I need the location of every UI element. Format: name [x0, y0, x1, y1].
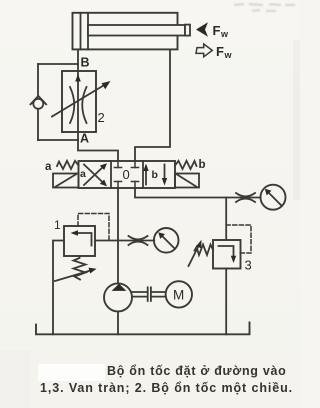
- position a crossed arrows: [84, 163, 107, 186]
- wire P line pump to valve: [117, 188, 119, 284]
- directional valve body: [79, 161, 176, 188]
- svg-text:B: B: [81, 56, 90, 70]
- wire T line to right: [135, 188, 261, 198]
- left solenoid: [53, 174, 79, 188]
- piston rod: [88, 25, 190, 36]
- svg-text:M: M: [173, 288, 184, 303]
- caption line 2: [40, 381, 293, 395]
- wire cylinder rod side down: [135, 49, 170, 161]
- spring of valve 1: [74, 256, 86, 280]
- svg-text:b: b: [152, 169, 158, 181]
- wire tee down to valve 3: [225, 198, 227, 241]
- pump: [104, 283, 132, 311]
- svg-text:w: w: [220, 29, 229, 39]
- wire valve1 drain to tank: [53, 241, 64, 335]
- svg-text:a: a: [45, 161, 52, 173]
- coupling shaft: [132, 287, 166, 301]
- svg-text:2: 2: [98, 110, 105, 125]
- wire bypass bottom: [38, 139, 78, 141]
- position b parallel arrows: [143, 164, 167, 186]
- gauge top right: [261, 185, 286, 210]
- svg-text:b: b: [199, 159, 206, 171]
- spring 1 adjust arrow: [55, 268, 97, 281]
- position 0 blocked ports: [114, 161, 138, 188]
- throttle top right: [236, 193, 255, 196]
- throttle middle: [129, 236, 148, 239]
- svg-text:0: 0: [123, 167, 130, 182]
- check valve: [31, 96, 47, 109]
- relief valve 3 body: [213, 240, 241, 269]
- tank: [36, 322, 250, 334]
- svg-text:A: A: [80, 132, 89, 146]
- right spring: [175, 161, 197, 169]
- throttle arcs of valve 2: [70, 87, 74, 123]
- spring of valve 3: [195, 245, 214, 256]
- relief valve 1 internal arrow: [71, 230, 92, 245]
- wire cylinder cap to node B: [77, 49, 79, 71]
- pilot line valve 3 (dashed): [226, 225, 251, 253]
- svg-text:3: 3: [245, 258, 252, 273]
- relief valve 3 internal arrow: [219, 246, 237, 263]
- pilot line valve 1 (dashed): [78, 214, 109, 241]
- svg-text:F: F: [213, 23, 221, 38]
- middle branch wire with throttle: [118, 240, 154, 242]
- caption line 1: [107, 364, 287, 378]
- flow line through valve 2: [77, 71, 79, 140]
- cylinder body: [73, 13, 178, 50]
- svg-text:w: w: [224, 50, 233, 60]
- gauge middle: [154, 228, 179, 253]
- wire A down to valve: [78, 140, 118, 161]
- svg-text:a: a: [80, 168, 86, 180]
- svg-text:1: 1: [54, 218, 61, 232]
- wire valve3 drain to tank: [225, 269, 227, 335]
- spring 3 adjust arrow: [189, 240, 202, 266]
- flow control valve 2 body: [62, 71, 96, 132]
- svg-text:F: F: [216, 44, 224, 59]
- relief valve 1 body: [64, 226, 95, 256]
- wire bypass left lower: [37, 109, 39, 140]
- wire bypass left upper: [37, 64, 39, 97]
- print-through ghost text top right: [234, 4, 295, 11]
- force arrow Fw (outline right): [196, 44, 212, 57]
- left spring: [57, 161, 79, 169]
- right solenoid: [175, 174, 199, 188]
- pump suction wire: [117, 311, 119, 334]
- adjustment arrow of valve 2: [52, 81, 111, 117]
- piston: [80, 13, 82, 50]
- wire valve1 to P line: [95, 240, 118, 242]
- force arrow Fw (solid left): [196, 22, 208, 36]
- wire bypass top: [38, 63, 78, 65]
- electric motor M: [166, 281, 192, 307]
